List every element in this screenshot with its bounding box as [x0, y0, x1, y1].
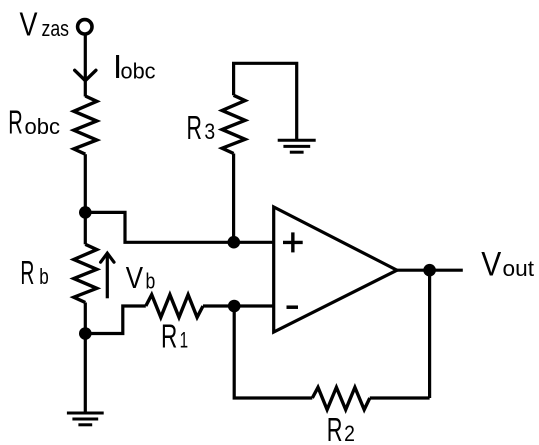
wire Rb to node C — [84, 303, 87, 334]
label R2 — [327, 411, 355, 445]
wire R2 to output vertical — [370, 396, 430, 399]
ground (bottom left) — [67, 413, 104, 425]
svg-text:V: V — [481, 245, 501, 283]
label R1 — [161, 317, 188, 354]
svg-text:R: R — [8, 104, 23, 141]
wire output node down to R2 — [428, 270, 431, 398]
wire node A to Rb — [84, 212, 87, 244]
op-amp U1 — [274, 207, 397, 332]
resistor Rb — [74, 244, 97, 302]
svg-text:V: V — [20, 6, 38, 43]
wire R3 to node B — [232, 154, 235, 243]
node B (junction dot + input / R3) — [228, 236, 241, 249]
current arrow Iobc (chevron) — [75, 70, 96, 80]
svg-text:obc: obc — [25, 114, 61, 139]
resistor R2 — [312, 387, 370, 409]
node A (junction dot Robc/Rb) — [79, 206, 92, 219]
wire R3 top — [234, 63, 297, 140]
terminal Vzas (open circle) — [78, 20, 92, 34]
op-amp - pin symbol — [287, 305, 299, 309]
wire node C to R1 — [85, 306, 146, 334]
label Vb — [126, 260, 156, 295]
svg-text:R: R — [161, 317, 177, 354]
svg-text:R: R — [327, 411, 343, 445]
label Vzas — [20, 6, 70, 43]
wire R1 to op-amp - input — [203, 304, 274, 307]
svg-text:out: out — [503, 256, 535, 281]
resistor R1 — [146, 295, 203, 318]
node E (output junction dot) — [423, 264, 436, 277]
op-amp + pin symbol — [283, 232, 303, 252]
svg-text:R: R — [20, 254, 34, 291]
svg-text:2: 2 — [344, 421, 355, 445]
resistor Robc — [74, 96, 97, 154]
svg-text:zas: zas — [42, 16, 70, 41]
resistor R3 — [222, 95, 245, 153]
svg-text:1: 1 — [180, 328, 189, 353]
wire Vzas to Robc — [84, 35, 87, 97]
wire Robc to node A — [84, 154, 87, 212]
label Iobc — [113, 48, 156, 85]
svg-text:V: V — [126, 260, 144, 295]
label R3 — [187, 109, 216, 146]
label Vout — [481, 245, 534, 283]
wire node A to op-amp + input — [85, 212, 273, 242]
label Rb — [20, 254, 48, 291]
svg-text:b: b — [146, 268, 156, 293]
node D (junction dot - input) — [228, 300, 241, 313]
label Robc — [8, 104, 60, 141]
svg-text:R: R — [187, 109, 202, 146]
node C (junction dot Rb bottom) — [79, 327, 92, 340]
wire op-amp output — [397, 269, 463, 272]
svg-text:3: 3 — [204, 119, 215, 144]
svg-text:b: b — [39, 264, 49, 289]
wire node D down to R2 — [234, 306, 312, 398]
voltage arrow Vb (up) — [101, 253, 114, 298]
wire node C to ground — [84, 334, 87, 414]
ground (top right) — [278, 140, 316, 152]
svg-text:obc: obc — [121, 59, 156, 84]
